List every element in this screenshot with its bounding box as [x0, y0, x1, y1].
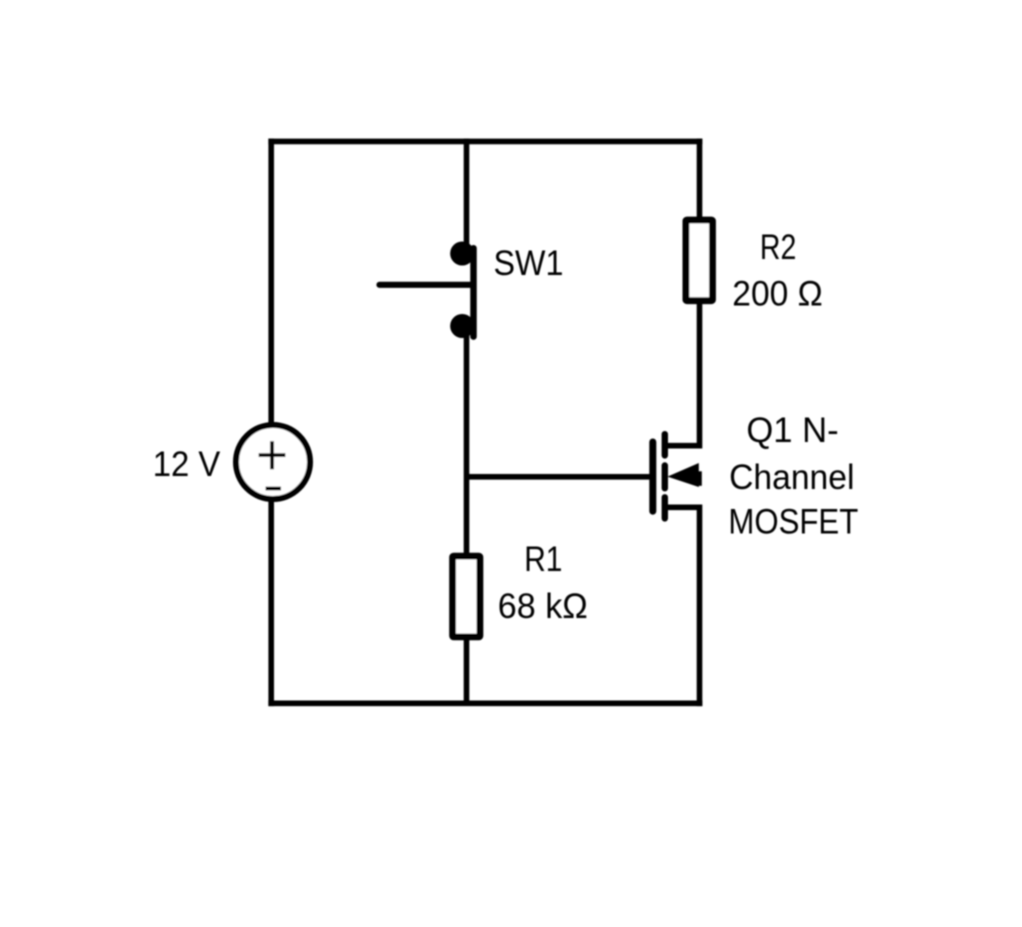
- resistor R1 body: [453, 556, 480, 637]
- transistor Q1 body arrow: [668, 463, 699, 487]
- svg-text:Channel: Channel: [729, 458, 854, 497]
- voltage source V1 12V circle: [236, 425, 310, 499]
- wire right upper with drain lead: [665, 139, 700, 446]
- wire gate lead: [467, 474, 652, 480]
- transistor Q1 channel dash top: [662, 434, 668, 455]
- svg-text:R1: R1: [524, 540, 562, 579]
- wire bottom: [268, 700, 702, 706]
- transistor Q1 channel dash middle: [662, 466, 668, 489]
- svg-text:Q1 N-: Q1 N-: [746, 411, 838, 450]
- svg-text:R2: R2: [760, 228, 796, 267]
- transistor Q1 body stub: [695, 471, 701, 486]
- minus sign: [266, 487, 282, 491]
- transistor Q1 channel dash bottom: [662, 497, 668, 518]
- transistor Q1 gate bar: [649, 442, 656, 511]
- svg-text:68 kΩ: 68 kΩ: [498, 587, 588, 626]
- plus sign: [259, 441, 286, 469]
- wire right lower with source lead: [665, 507, 700, 706]
- svg-text:12 V: 12 V: [153, 445, 221, 484]
- wire middle branch lower: [464, 326, 470, 703]
- svg-text:MOSFET: MOSFET: [728, 503, 858, 542]
- svg-text:200 Ω: 200 Ω: [732, 274, 822, 313]
- resistor R2 body: [686, 220, 713, 301]
- wire top: [268, 139, 702, 145]
- switch SW1 contact dot bottom: [450, 314, 474, 338]
- wire left: [268, 139, 274, 707]
- switch SW1 actuator: [380, 282, 472, 288]
- switch SW1 contact dot top: [450, 241, 474, 265]
- switch SW1 bridge bar: [470, 248, 477, 336]
- svg-text:SW1: SW1: [494, 244, 564, 283]
- wire middle branch upper: [464, 139, 470, 253]
